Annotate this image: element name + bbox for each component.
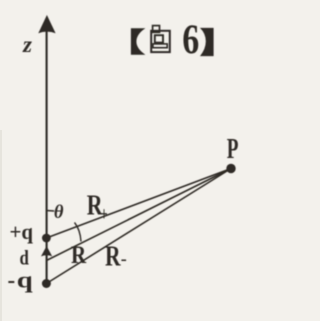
title bracket left bbox=[131, 28, 146, 54]
line R+ from +q to P bbox=[46, 169, 231, 239]
svg-text:P: P bbox=[227, 133, 239, 165]
svg-text:R: R bbox=[71, 240, 86, 268]
point P dot bbox=[226, 164, 235, 173]
svg-text:-: - bbox=[8, 268, 16, 293]
line R from dipole center to P bbox=[46, 169, 231, 261]
svg-text:+q: +q bbox=[10, 220, 34, 245]
svg-text:+: + bbox=[101, 202, 108, 225]
title glyph tu (figure) bbox=[151, 26, 170, 52]
charge +q dot bbox=[42, 234, 51, 243]
svg-text:q: q bbox=[17, 267, 34, 293]
dipole arrow d (arrowhead on axis) bbox=[41, 246, 52, 256]
svg-text:z: z bbox=[22, 32, 32, 57]
svg-text:θ: θ bbox=[54, 203, 64, 223]
charge -q dot bbox=[42, 279, 51, 288]
svg-text:R: R bbox=[105, 239, 121, 272]
angle arc bbox=[75, 223, 82, 242]
wire z-axis bbox=[46, 30, 48, 282]
title bracket right bbox=[200, 28, 214, 56]
z-axis arrowhead bbox=[38, 15, 55, 33]
svg-text:-: - bbox=[121, 249, 127, 269]
svg-text:6: 6 bbox=[182, 17, 199, 63]
angle arc tick at z-axis bbox=[47, 210, 55, 213]
scan artifact: faint left-edge streak bbox=[0, 130, 2, 321]
line R- from -q to P bbox=[46, 169, 231, 284]
